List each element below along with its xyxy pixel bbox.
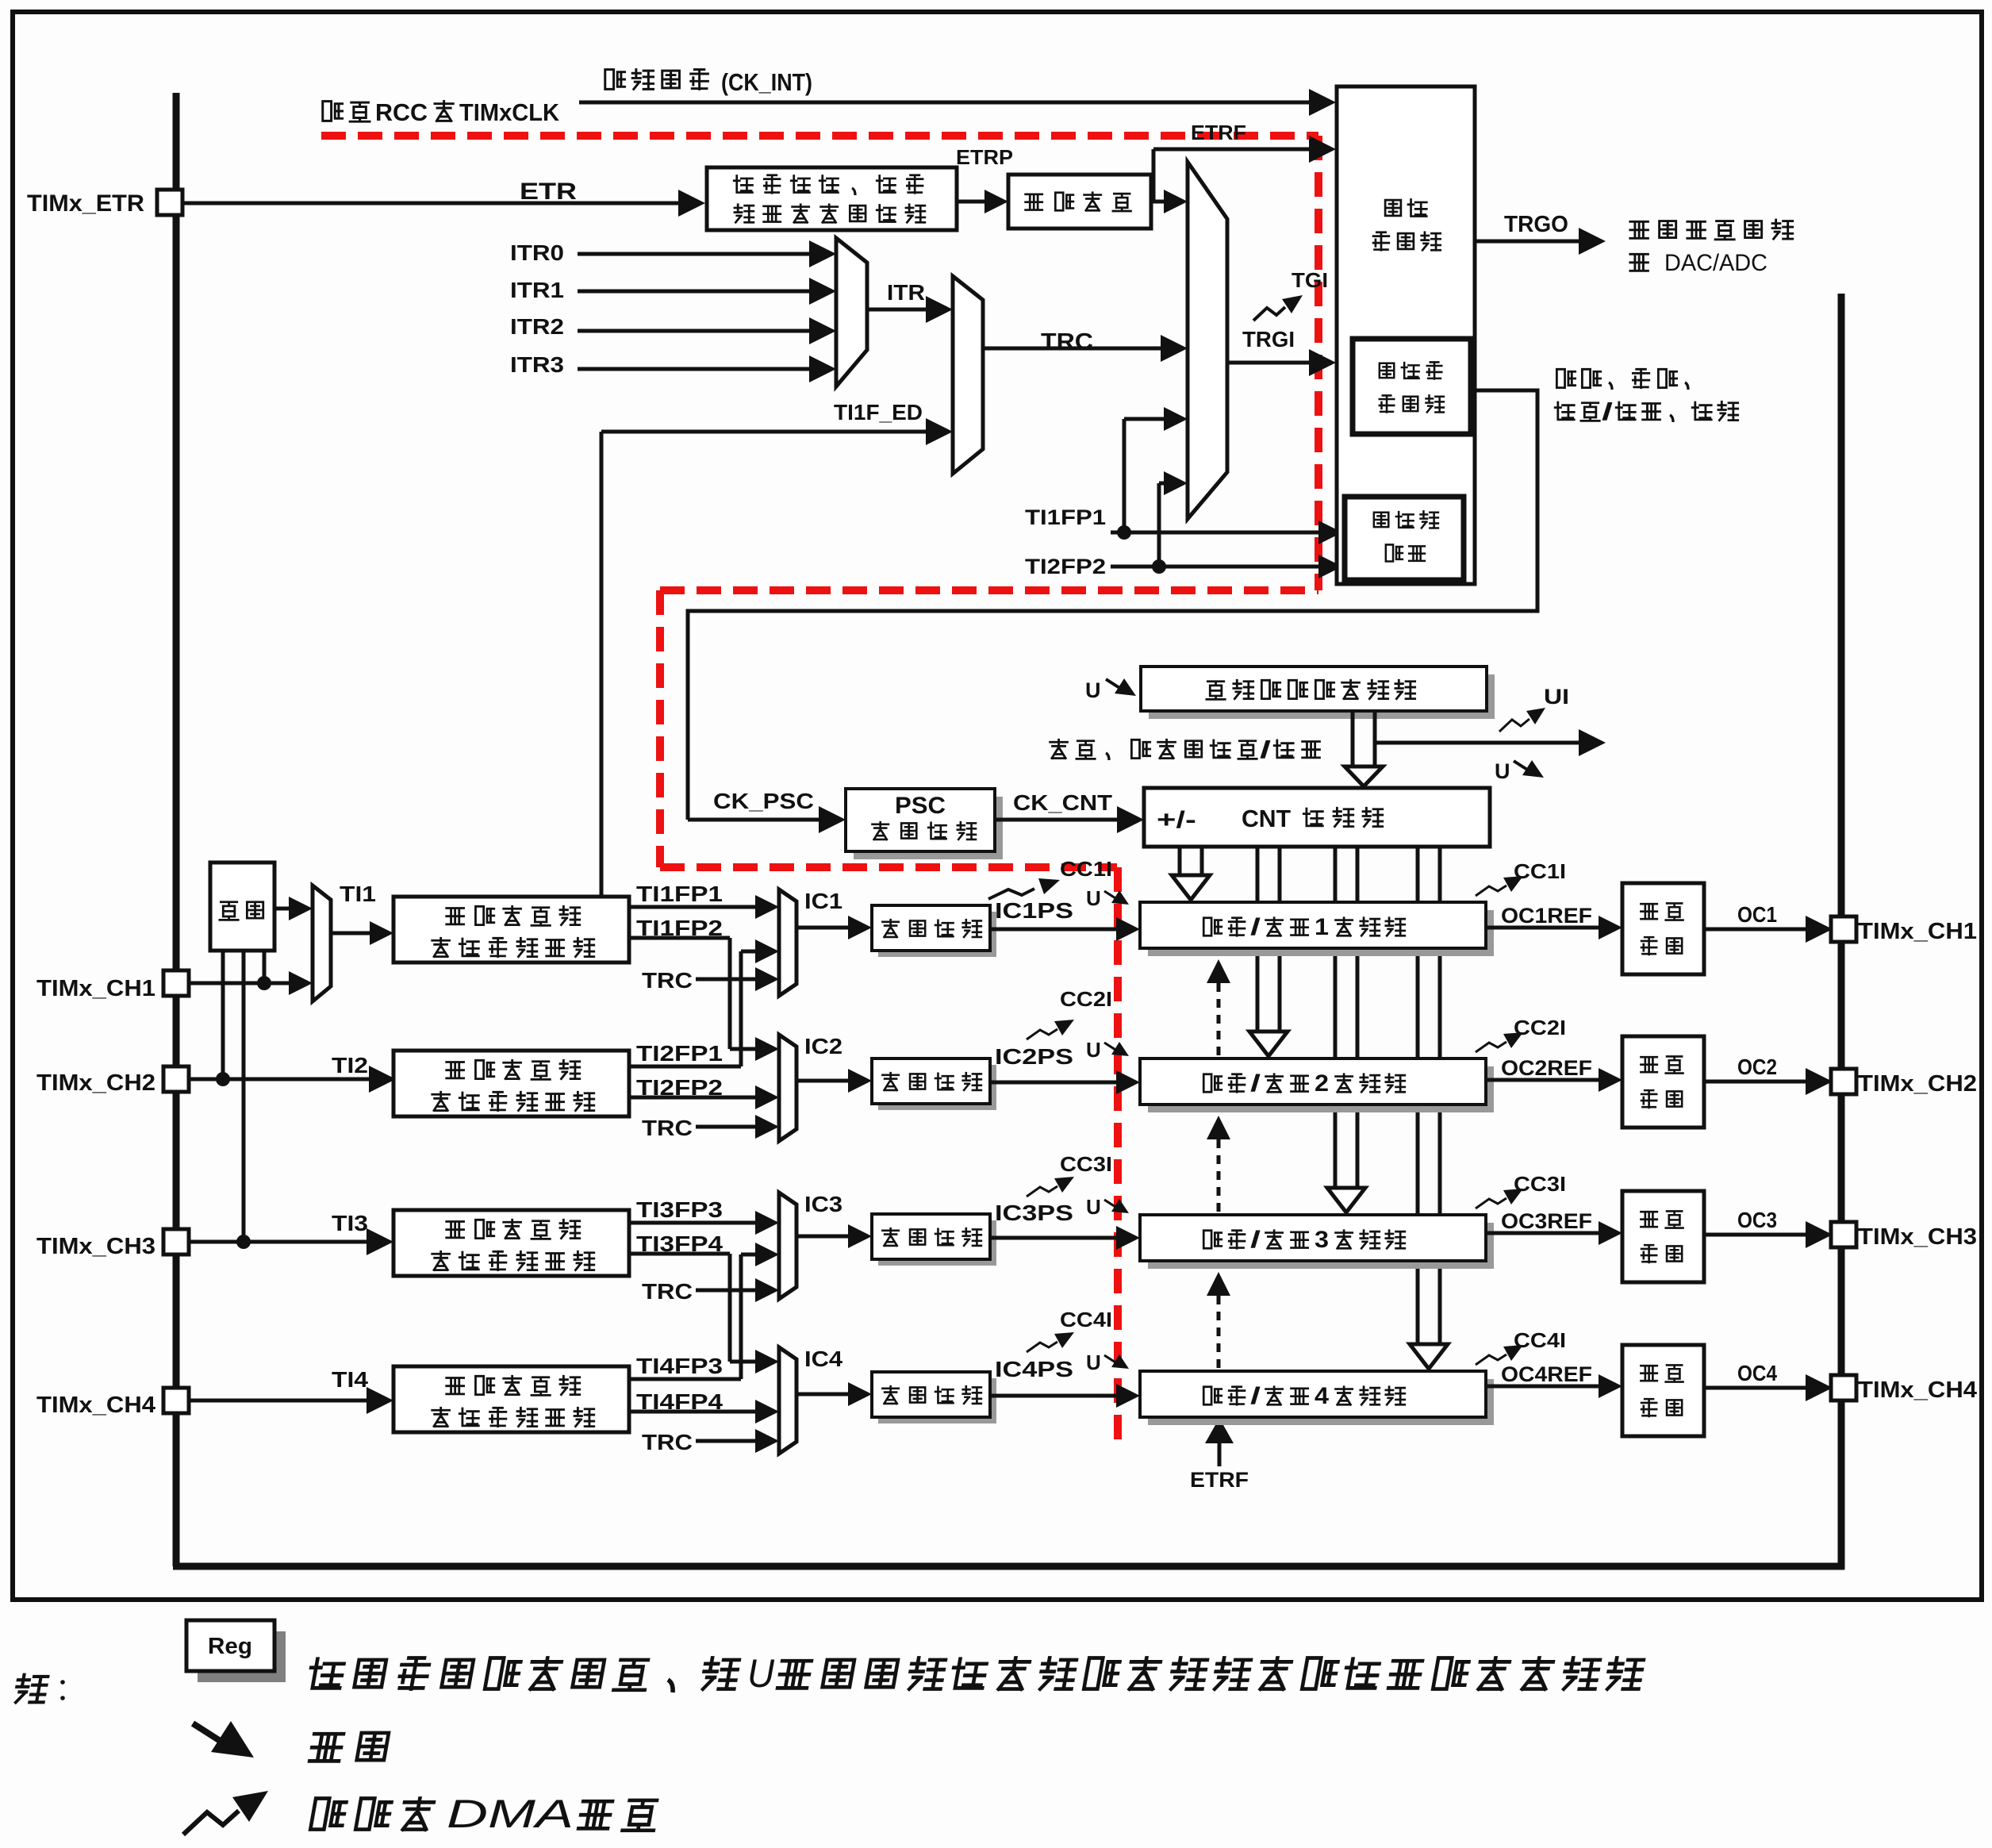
svg-text:TI2: TI2 [332, 1053, 368, 1078]
svg-text:TI1FP1: TI1FP1 [636, 882, 723, 906]
wire IC2PS [990, 1081, 1118, 1085]
mux IC2 [779, 1035, 796, 1141]
red dashed region line 2 [1315, 136, 1322, 590]
svg-text:CC4I: CC4I [1060, 1308, 1112, 1331]
svg-text:/: / [1250, 1227, 1261, 1253]
box encoder interface [1345, 497, 1464, 580]
svg-text:U: U [1086, 1350, 1101, 1374]
red dashed region line 5 [660, 863, 1117, 871]
svg-text:TGI: TGI [1292, 268, 1328, 292]
svg-text:TIMx_CH3: TIMx_CH3 [36, 1234, 155, 1259]
svg-text:CC2I: CC2I [1514, 1016, 1566, 1039]
wire slave mode feedback [688, 390, 1537, 820]
wire XOR out [274, 907, 290, 911]
wire ITR3 [578, 367, 811, 371]
wire CK_INT [579, 101, 1311, 105]
wire TI2FP1 up to IC1 [629, 1065, 741, 1069]
wire ITR1 [578, 290, 811, 294]
svg-text:TRGI: TRGI [1242, 327, 1295, 352]
wire OC2 [1704, 1080, 1807, 1084]
svg-text:1: 1 [1315, 914, 1329, 940]
symbol CC1I zigzag right [1476, 886, 1506, 896]
svg-text:TIMx_CH2: TIMx_CH2 [1858, 1071, 1977, 1097]
wire XOR leg to CH2 [221, 951, 225, 1079]
wire ETRF up to CCR4 [1218, 1443, 1222, 1466]
svg-text:ETRF: ETRF [1191, 121, 1246, 144]
svg-text:2: 2 [1315, 1070, 1329, 1097]
wire TI3 [189, 1240, 368, 1244]
svg-text:/: / [1250, 1070, 1261, 1097]
svg-text:OC3: OC3 [1737, 1208, 1777, 1232]
box auto-reload register [1149, 674, 1495, 719]
wire TRC row 4 [696, 1439, 757, 1443]
hollow arrow CNT to CCR4 [1416, 847, 1420, 1344]
svg-text:OC2: OC2 [1737, 1055, 1777, 1079]
pin TIMx_CH2 right [1831, 1069, 1856, 1094]
mux IC4 [779, 1347, 796, 1454]
svg-text:IC1: IC1 [804, 889, 842, 913]
svg-text:DMA: DMA [447, 1792, 574, 1836]
box prescaler 3 [878, 1220, 996, 1266]
svg-text:TRC: TRC [642, 968, 693, 993]
box PSC prescaler [854, 797, 1003, 859]
svg-text:ETRP: ETRP [956, 145, 1013, 169]
red dashed region line 4 [656, 590, 664, 867]
box input filter edge detector 4 [393, 1366, 629, 1432]
svg-text:TI1: TI1 [340, 882, 376, 906]
svg-text:TRGO: TRGO [1504, 212, 1568, 237]
svg-text:TI1F_ED: TI1F_ED [834, 400, 923, 425]
mux trigger select [1188, 162, 1227, 519]
wire filter to trigger mux [1151, 200, 1165, 204]
svg-text:PSC: PSC [895, 793, 946, 819]
box capture compare register 4 [1148, 1379, 1494, 1425]
wire TI1F_ED [600, 432, 604, 897]
wire TI2FP2 riser to trigger mux [1157, 483, 1161, 567]
wire ITR0 [578, 252, 811, 256]
symbol CC3I zigzag left [1027, 1186, 1057, 1197]
svg-text:TRC: TRC [642, 1279, 693, 1304]
svg-text:ITR2: ITR2 [510, 314, 564, 339]
wire update event to right [1375, 741, 1581, 745]
svg-text:ETR: ETR [520, 179, 577, 205]
wire TRC row 3 [696, 1289, 757, 1293]
label CK_INT internal clock [605, 70, 625, 90]
wire TI4 [189, 1399, 368, 1403]
wire TI2 [189, 1078, 370, 1082]
box output control 4 [1622, 1345, 1704, 1436]
box output control 2 [1622, 1036, 1704, 1128]
svg-text:/: / [1250, 1383, 1261, 1409]
wire OC1 [1704, 928, 1807, 932]
mux IC3 [779, 1193, 796, 1299]
legend text preload transfer [308, 1659, 345, 1689]
label updown count [1555, 402, 1574, 420]
svg-text:CK_CNT: CK_CNT [1013, 790, 1112, 815]
svg-text:OC4: OC4 [1737, 1361, 1777, 1385]
symbol CC4I zigzag right [1476, 1354, 1506, 1365]
svg-text:OC3REF: OC3REF [1501, 1209, 1592, 1233]
red dashed region line 3 [660, 586, 1318, 594]
wire TI1FP1 riser to trigger mux [1123, 419, 1126, 532]
svg-text:U: U [747, 1651, 775, 1696]
svg-text:TI4: TI4 [332, 1367, 368, 1392]
legend Reg box [198, 1631, 286, 1682]
svg-text:/: / [1260, 736, 1272, 763]
pin TIMx_CH1 right [1831, 916, 1856, 942]
dashed arrow up to CCR2 [1217, 1139, 1221, 1212]
wire TI3FP4 down to IC4 [629, 1252, 730, 1256]
wire CK_CNT [995, 818, 1119, 822]
svg-text:TIMx_CH3: TIMx_CH3 [1858, 1224, 1977, 1250]
box prescaler 1 [878, 912, 996, 957]
svg-text:IC4: IC4 [804, 1347, 842, 1371]
wire CK_PSC [688, 818, 820, 822]
svg-text:TI3: TI3 [332, 1211, 368, 1235]
symbol CC2I zigzag left [1027, 1029, 1057, 1039]
legend label event [309, 1734, 344, 1761]
box CNT counter [1144, 788, 1490, 847]
svg-text:TI3FP3: TI3FP3 [636, 1197, 723, 1222]
legend label interrupt and DMA output [310, 1798, 347, 1829]
label to other timers [1630, 221, 1648, 238]
legend interrupt symbol [183, 1811, 239, 1835]
wire TI1FP1 [629, 905, 757, 909]
svg-text:CK_PSC: CK_PSC [713, 789, 814, 813]
svg-text:OC2REF: OC2REF [1501, 1056, 1592, 1080]
wire TI2FP2 [629, 1096, 757, 1100]
svg-text:ITR: ITR [887, 280, 925, 305]
svg-text:TIMx_ETR: TIMx_ETR [27, 190, 144, 217]
wire OC4 [1704, 1386, 1807, 1390]
box output control 3 [1622, 1191, 1704, 1282]
wire OC3REF [1486, 1231, 1600, 1235]
svg-text:TIMx_CH1: TIMx_CH1 [1858, 919, 1977, 944]
wire IC2 out [796, 1079, 850, 1083]
wire IC4 out [796, 1393, 850, 1397]
symbol CC1I zigzag left [988, 889, 1034, 899]
svg-text:CC1I: CC1I [1514, 859, 1566, 883]
svg-text:TIMx_CH1: TIMx_CH1 [36, 976, 155, 1001]
wire IC1 out [796, 926, 850, 930]
svg-text:U: U [1086, 1038, 1101, 1062]
mux ITR select [836, 238, 867, 386]
svg-text:+/-: +/- [1157, 807, 1196, 833]
wire XOR leg to CH3 [242, 951, 246, 1242]
svg-text:CC3I: CC3I [1060, 1152, 1112, 1176]
mux IC1 [779, 889, 796, 996]
svg-text:CC4I: CC4I [1514, 1328, 1566, 1352]
svg-text:U: U [1495, 759, 1510, 783]
wire TI3FP3 [629, 1221, 757, 1225]
wire TI1 [331, 932, 371, 936]
svg-text:DAC/ADC: DAC/ADC [1664, 250, 1767, 276]
svg-text:Reg: Reg [208, 1634, 252, 1659]
box capture compare register 2 [1148, 1066, 1494, 1112]
wire OC4REF [1486, 1385, 1600, 1389]
svg-text:/: / [1250, 914, 1261, 940]
svg-text:3: 3 [1315, 1227, 1329, 1253]
wire TI4FP4 [629, 1410, 757, 1414]
box XOR [210, 863, 274, 951]
wire TI1FP2 down to IC2 [629, 936, 730, 940]
svg-text:TRC: TRC [1041, 329, 1093, 355]
svg-text:ITR3: ITR3 [510, 352, 564, 377]
svg-text:OC1: OC1 [1737, 902, 1777, 927]
svg-text:IC4PS: IC4PS [995, 1357, 1073, 1381]
wire TRC row 2 [696, 1125, 757, 1129]
label TIMxCLK from RCC [323, 102, 343, 121]
svg-text:OC1REF: OC1REF [1501, 904, 1592, 928]
hollow arrow CNT to CCR2 [1256, 847, 1260, 1032]
svg-text:IC2: IC2 [804, 1034, 842, 1058]
svg-text:U: U [1085, 678, 1101, 702]
wire OC3 [1704, 1233, 1807, 1237]
svg-text:ITR1: ITR1 [510, 278, 564, 302]
symbol CC3I zigzag right [1476, 1198, 1506, 1208]
mux TRC select [953, 276, 983, 474]
svg-text:TIMx_CH4: TIMx_CH4 [1858, 1377, 1977, 1403]
wire TRC row 1 [696, 978, 757, 982]
bottom bus wire [173, 1563, 1844, 1570]
symbol TGI interrupt zigzag [1253, 307, 1285, 321]
svg-text:RCC: RCC [375, 98, 428, 126]
svg-text:TI2FP1: TI2FP1 [636, 1041, 723, 1066]
svg-text:CC3I: CC3I [1514, 1172, 1566, 1196]
label stop clear updown [1050, 740, 1068, 758]
wire CH1 to mux [189, 982, 290, 985]
wire XOR leg to CH1 [263, 951, 267, 983]
box prescaler 2 [878, 1065, 996, 1110]
wire OC1REF [1486, 926, 1600, 930]
box input filter edge detector 1 [393, 897, 629, 962]
svg-text:CNT: CNT [1242, 805, 1291, 832]
svg-text:OC4REF: OC4REF [1501, 1362, 1592, 1386]
svg-text:IC1PS: IC1PS [995, 898, 1073, 923]
hollow arrow CNT to CCR1 [1178, 847, 1182, 875]
svg-text:ETRF: ETRF [1190, 1468, 1249, 1492]
box prescaler 4 [878, 1378, 996, 1423]
pin TIMx_CH3 right [1831, 1222, 1856, 1247]
svg-text:TI1FP1: TI1FP1 [1025, 505, 1106, 529]
wire TRC to trigger mux [983, 347, 1162, 351]
wire OC2REF [1486, 1078, 1600, 1082]
legend event symbol [193, 1723, 220, 1741]
wire TRGO [1475, 240, 1580, 244]
wire TRGI [1227, 361, 1311, 365]
wire IC3PS [990, 1236, 1118, 1240]
symbol UI zigzag [1499, 719, 1530, 732]
pin TIMx_CH4 right [1831, 1375, 1856, 1400]
red dashed region line 6 [1114, 867, 1122, 1446]
dashed arrow up to CCR3 [1217, 1296, 1221, 1368]
red dashed region line 1 [321, 132, 1318, 140]
wire TI1FP1 to encoder [1111, 531, 1320, 535]
box trigger controller [1337, 86, 1475, 584]
symbol CC2I zigzag right [1476, 1042, 1506, 1052]
svg-text:TIMx_CH4: TIMx_CH4 [36, 1393, 155, 1418]
label note [14, 1675, 48, 1703]
wire TI4FP3 up to IC3 [629, 1377, 741, 1381]
svg-text:U: U [1086, 1195, 1101, 1219]
wire IC3 out [796, 1235, 850, 1239]
box capture compare register 3 [1148, 1223, 1494, 1269]
svg-text:TIMx_CH2: TIMx_CH2 [36, 1070, 155, 1096]
box input filter [1008, 175, 1151, 229]
wire ITR [867, 308, 927, 312]
svg-text:4: 4 [1315, 1383, 1329, 1409]
right bus wire [1838, 294, 1845, 1569]
svg-text:IC3PS: IC3PS [995, 1201, 1073, 1225]
box input filter edge detector 2 [393, 1051, 629, 1116]
svg-text:ITR0: ITR0 [510, 240, 564, 265]
svg-text:TI2FP2: TI2FP2 [1025, 555, 1106, 578]
box slave mode controller [1353, 339, 1471, 434]
wire IC4PS [990, 1394, 1118, 1398]
svg-text:TRC: TRC [642, 1430, 693, 1454]
svg-text:(CK_INT): (CK_INT) [721, 68, 812, 96]
wire ETRP [957, 200, 986, 204]
box input filter edge detector 3 [393, 1210, 629, 1276]
hollow arrow ARR to CNT [1351, 711, 1355, 766]
svg-text:TRC: TRC [642, 1116, 693, 1140]
svg-text:CC2I: CC2I [1060, 987, 1112, 1011]
dashed arrow up to CCR1 [1217, 983, 1221, 1055]
wire IC1PS [990, 928, 1118, 932]
symbol CC4I zigzag left [1027, 1342, 1057, 1352]
box capture compare register 1 [1148, 910, 1494, 956]
left bus wire [173, 93, 180, 1566]
wire ITR2 [578, 329, 811, 333]
svg-text:U: U [1086, 886, 1101, 910]
svg-text:TIMxCLK: TIMxCLK [459, 98, 560, 126]
wire TI2FP2 to encoder [1111, 565, 1320, 569]
hollow arrow CNT to CCR3 [1334, 847, 1338, 1188]
svg-text:UI: UI [1544, 685, 1569, 709]
label reset enable [1556, 369, 1575, 387]
svg-text:/: / [1602, 398, 1614, 425]
mux TI1 xor select [313, 886, 331, 1001]
svg-text:CC1I: CC1I [1060, 857, 1112, 881]
svg-text:TI4FP3: TI4FP3 [636, 1354, 723, 1378]
svg-text:IC3: IC3 [804, 1192, 842, 1216]
box polarity selection edge detection prescaler [707, 167, 957, 230]
box output control 1 [1622, 883, 1704, 974]
svg-text:IC2PS: IC2PS [995, 1044, 1073, 1069]
wire ETRF [1152, 149, 1156, 202]
